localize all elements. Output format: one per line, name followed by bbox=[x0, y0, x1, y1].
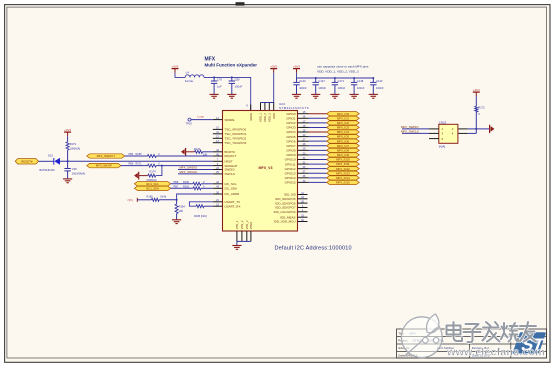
pin IDD_VDD_MCU stub bbox=[298, 221, 308, 223]
svg-text:MFX_WKUP: MFX_WKUP bbox=[96, 164, 112, 168]
net flag MFX_IO2 bbox=[327, 121, 360, 125]
R172 label bbox=[478, 106, 485, 110]
svg-text:R170: R170 bbox=[194, 147, 201, 151]
C147 value bbox=[318, 86, 326, 90]
svg-text:Multi Function eXpander: Multi Function eXpander bbox=[205, 62, 258, 67]
svg-text:MFX_SWDIO: MFX_SWDIO bbox=[401, 125, 419, 129]
svg-text:100nF: 100nF bbox=[235, 85, 243, 89]
pin IDD_SD/GPO6 stub bbox=[298, 202, 308, 204]
wire R186 to USART_RX bbox=[204, 205, 213, 207]
svg-text:1uF: 1uF bbox=[217, 85, 222, 89]
pin name TSC_YN/GPIO3 bbox=[225, 141, 247, 145]
resistor R184 bbox=[175, 204, 178, 214]
svg-text:PB0: PB0 bbox=[129, 163, 134, 166]
CN22 pin1 number bbox=[442, 127, 444, 131]
svg-text:VSS_2: VSS_2 bbox=[240, 220, 244, 229]
svg-text:MFX_SWCLK: MFX_SWCLK bbox=[401, 129, 419, 133]
pin VSS stub 4 bbox=[250, 231, 252, 241]
pin number 1 bbox=[302, 209, 304, 212]
pin name WAKEUP bbox=[225, 164, 238, 168]
wire SWCLK bbox=[178, 173, 213, 175]
wire GPIO13 to flag bbox=[309, 172, 327, 174]
pin name USART_RX bbox=[225, 204, 241, 208]
port RESET# bbox=[15, 159, 38, 164]
pin number GPIO14 bbox=[303, 175, 306, 178]
pin name GPIO14 bbox=[285, 176, 296, 180]
pin name IDD_SD/GPO6 bbox=[275, 201, 296, 205]
power +3V3 decoupling bank bbox=[293, 64, 300, 73]
pin name VSS_3 bbox=[245, 220, 249, 229]
pin 42 I2C_SCL stub bbox=[213, 183, 223, 185]
svg-text:Loop: Loop bbox=[198, 115, 205, 119]
pin name IDD_VDD_MCU bbox=[274, 220, 296, 224]
wire GPIO8 to flag bbox=[309, 149, 327, 151]
R181 label bbox=[183, 185, 190, 188]
R185 label bbox=[136, 153, 143, 156]
pin 26 I2C_ADDR stub bbox=[213, 193, 223, 195]
junction C76 bbox=[213, 76, 215, 78]
C76 label bbox=[217, 77, 222, 81]
power +3V3 CN22 bbox=[473, 88, 480, 97]
R174 label bbox=[150, 169, 157, 173]
port I2C1_SDA bbox=[134, 186, 170, 190]
wire GPIO5 to flag bbox=[309, 136, 327, 138]
note default I2C address bbox=[275, 246, 352, 252]
svg-text:VDD_2: VDD_2 bbox=[263, 113, 267, 122]
svg-text:GPIO2: GPIO2 bbox=[286, 121, 296, 125]
svg-text:TSC_YP/GPIO2: TSC_YP/GPIO2 bbox=[225, 137, 247, 141]
pin number GPIO2 bbox=[303, 120, 306, 123]
pin name VDD_1 bbox=[259, 113, 263, 122]
wire junction to I2C_ADDR bbox=[177, 194, 213, 200]
svg-text:Ferrite: Ferrite bbox=[185, 79, 194, 83]
svg-text:STM32L152CCT6: STM32L152CCT6 bbox=[279, 106, 309, 110]
ground BOOT0 sideways bbox=[181, 148, 186, 156]
wire I2C1_SCL to R180 bbox=[171, 183, 193, 185]
capacitor C76 bbox=[211, 77, 217, 94]
pin name GPIO13 bbox=[285, 171, 296, 175]
svg-text:100nF: 100nF bbox=[357, 86, 365, 90]
capacitor C143 bbox=[370, 78, 376, 94]
TP10 label bbox=[186, 122, 193, 126]
pin name IDD_MEAS bbox=[280, 215, 295, 219]
svg-text:IDD_SD/GPO6: IDD_SD/GPO6 bbox=[275, 201, 296, 205]
svg-text:VDD_3: VDD_3 bbox=[267, 113, 271, 122]
pin 7 NRST stub bbox=[213, 160, 223, 162]
R172 value bbox=[478, 112, 480, 116]
ground C80 bbox=[227, 94, 236, 98]
net label PB7 bbox=[174, 185, 179, 188]
svg-text:100nF: 100nF bbox=[376, 86, 384, 90]
pin name IDD_SD/GPO7 bbox=[275, 206, 296, 210]
svg-text:IDD_VDD_MCU: IDD_VDD_MCU bbox=[274, 220, 296, 224]
pin number 12 bbox=[216, 136, 219, 139]
svg-text:GPIO4: GPIO4 bbox=[286, 130, 296, 134]
pin number GPIO9 bbox=[303, 152, 306, 155]
wire gnd to R174 bbox=[139, 175, 148, 177]
pin GPIO14 stub bbox=[298, 177, 309, 179]
pin VSS stub 3 bbox=[246, 231, 248, 241]
svg-text:BAT60JFILM: BAT60JFILM bbox=[40, 168, 55, 172]
svg-text:MFX_IO9: MFX_IO9 bbox=[337, 153, 349, 157]
ground C76 bbox=[210, 94, 219, 98]
pin GPIO1 stub bbox=[298, 117, 309, 119]
pin number GPIO6 bbox=[303, 139, 306, 142]
svg-text:GPIO6: GPIO6 bbox=[286, 139, 296, 143]
wire +3V3 to L4 bbox=[175, 73, 185, 78]
pin number 43 bbox=[216, 186, 219, 189]
pin number GPIO8 bbox=[303, 148, 306, 151]
inductor L4 bbox=[185, 75, 204, 78]
C148 value bbox=[357, 86, 365, 90]
pin number 14 bbox=[216, 117, 219, 120]
capacitor C80 bbox=[229, 77, 235, 94]
net flag MFX_IO3 bbox=[327, 125, 360, 129]
pin name IDD_SI0 bbox=[284, 193, 296, 197]
pin VDD_3 stub bbox=[268, 103, 270, 111]
svg-text:I2C1_SDA: I2C1_SDA bbox=[146, 186, 159, 190]
svg-text:MFX_IO3: MFX_IO3 bbox=[337, 126, 349, 130]
wire pin2 riser to pin4 bbox=[475, 129, 477, 134]
svg-text:100nF: 100nF bbox=[299, 86, 307, 90]
net flag MFX_IO1 bbox=[327, 116, 360, 120]
net flag MFX_IO15 bbox=[327, 180, 360, 184]
svg-text:MFX_IO14: MFX_IO14 bbox=[336, 176, 350, 180]
pin number GPIO12 bbox=[303, 166, 306, 169]
pin number 3 bbox=[217, 163, 219, 166]
pin GPIO3 stub bbox=[298, 126, 309, 128]
pin 45 IRQOUT stub bbox=[213, 155, 223, 157]
svg-text:GPIO13: GPIO13 bbox=[285, 171, 296, 175]
C171 label bbox=[338, 79, 345, 83]
svg-text:R186 [N/A]: R186 [N/A] bbox=[194, 214, 207, 218]
pin IDD_SD/GPO5 stub bbox=[298, 198, 308, 200]
net flag MFX_IO14 bbox=[327, 176, 360, 180]
pin name I2C_ADDR bbox=[225, 192, 241, 196]
C80 value bbox=[235, 85, 243, 89]
net label Loop bbox=[198, 115, 205, 119]
resistor R185 bbox=[148, 155, 157, 158]
pin 44 BOOT0 stub bbox=[213, 151, 223, 153]
pin name GPIO15 bbox=[285, 181, 296, 185]
note decoupling 1 bbox=[317, 64, 369, 68]
port I2C1_SCL bbox=[134, 182, 170, 186]
pin 13 TSC_YN/GPIO3 stub bbox=[213, 142, 223, 144]
pin name IDD_SD/GPO5 bbox=[275, 197, 296, 201]
wire GPIO7 to flag bbox=[309, 145, 327, 147]
title block frame bbox=[397, 329, 547, 358]
R179 label bbox=[70, 142, 77, 146]
pin GPIO6 stub bbox=[298, 140, 309, 142]
resistor R170 bbox=[195, 150, 203, 153]
svg-text:MFX_IO12: MFX_IO12 bbox=[336, 167, 350, 171]
pin name VDD bbox=[272, 113, 276, 119]
wire MFX_SWDIO to CN22 bbox=[402, 128, 429, 130]
svg-text:+3V3: +3V3 bbox=[293, 64, 300, 68]
wire GPIO1 to flag bbox=[309, 117, 327, 119]
svg-text:MFX_IO10: MFX_IO10 bbox=[336, 158, 350, 162]
C148 label bbox=[357, 79, 364, 83]
svg-text:R179: R179 bbox=[70, 142, 77, 146]
svg-text:MFX_IO6: MFX_IO6 bbox=[337, 139, 349, 143]
pin number 11 bbox=[216, 131, 219, 134]
pin number 24 bbox=[216, 167, 219, 170]
R186 label bbox=[194, 214, 207, 218]
wire pin2 to gnd bbox=[476, 128, 489, 130]
pin IDD_CAL/GPO4 stub bbox=[298, 211, 308, 213]
U24 name MFX_V3 bbox=[259, 166, 273, 170]
svg-text:MFX_IO5: MFX_IO5 bbox=[337, 135, 349, 139]
net flag MFX_IO4 bbox=[327, 130, 360, 134]
resistor R179 bbox=[66, 142, 69, 150]
svg-text:C171: C171 bbox=[338, 79, 345, 83]
svg-text:D15: D15 bbox=[48, 153, 53, 157]
svg-text:PB7: PB7 bbox=[174, 185, 179, 188]
pin number GPIO1 bbox=[303, 116, 306, 119]
svg-text:+3V3: +3V3 bbox=[172, 64, 179, 68]
svg-text:GPIO11: GPIO11 bbox=[285, 162, 296, 166]
svg-text:C140: C140 bbox=[299, 79, 306, 83]
junction C171 bbox=[334, 77, 336, 79]
pin number GPIO0 bbox=[303, 111, 306, 114]
pin 14 SPARE stub bbox=[213, 119, 223, 121]
pin number GPIO4 bbox=[303, 129, 306, 132]
wire pin2 bbox=[468, 128, 477, 130]
pin name I2C_SDA bbox=[225, 187, 238, 191]
svg-text:GPIO0: GPIO0 bbox=[286, 112, 296, 116]
C76 value bbox=[217, 85, 222, 89]
U24 refdes bbox=[279, 102, 285, 106]
net flag MFX_IO0 bbox=[327, 112, 360, 116]
pin number 34 bbox=[301, 196, 304, 199]
wire VSS bus bbox=[237, 240, 251, 242]
pin name TSC_XP/GPIO0 bbox=[225, 128, 247, 132]
pin name SPARE bbox=[225, 118, 235, 122]
svg-text:C143: C143 bbox=[376, 79, 383, 83]
L4 value Ferrite bbox=[185, 79, 194, 83]
svg-text:MFX_IO11: MFX_IO11 bbox=[336, 162, 350, 166]
ground VSS bbox=[232, 246, 241, 250]
pin name GPIO0 bbox=[286, 112, 296, 116]
R170 label bbox=[194, 147, 201, 151]
pin number 10 bbox=[216, 127, 219, 130]
schematic subtitle bbox=[205, 62, 258, 67]
R180 label bbox=[183, 181, 190, 184]
C143 value bbox=[376, 86, 384, 90]
svg-text:100nF[N/A]: 100nF[N/A] bbox=[72, 172, 85, 176]
pin 10 TSC_XP/GPIO0 stub bbox=[213, 128, 223, 130]
top edge mark bbox=[236, 2, 245, 5]
net flag MFX_IO7 bbox=[327, 144, 360, 148]
capacitor C148 bbox=[351, 78, 357, 94]
svg-text:GPIO5: GPIO5 bbox=[286, 135, 296, 139]
wire USART_TX bbox=[189, 202, 212, 206]
pin name GPIO8 bbox=[286, 149, 296, 153]
C171 value bbox=[338, 86, 346, 90]
wire R181 to I2C_SDA bbox=[201, 187, 213, 189]
pin name VSS_2 bbox=[240, 220, 244, 229]
net label MFX_SWDIO bbox=[180, 166, 198, 170]
svg-text:Default I2C Address:1000010: Default I2C Address:1000010 bbox=[275, 246, 352, 252]
D15 label bbox=[48, 153, 53, 157]
wire R179 to NRST bbox=[67, 150, 69, 161]
ground C148 bbox=[350, 94, 359, 98]
wire GPIO0 to flag bbox=[309, 113, 327, 115]
pin name GPIO1 bbox=[286, 116, 296, 120]
ground R184 bbox=[172, 220, 181, 224]
svg-text:MFX_IO0: MFX_IO0 bbox=[337, 112, 349, 116]
svg-text:MFX_IRQOUT: MFX_IRQOUT bbox=[97, 154, 116, 158]
svg-text:C80: C80 bbox=[235, 77, 240, 81]
svg-text:VDDA: VDDA bbox=[249, 113, 253, 121]
pin GPIO8 stub bbox=[298, 149, 309, 151]
pin number GPIO7 bbox=[303, 143, 306, 146]
wire GPIO2 to flag bbox=[309, 122, 327, 124]
svg-text:R185: R185 bbox=[136, 153, 143, 156]
svg-text:VSS_1: VSS_1 bbox=[235, 220, 239, 229]
junction C80 bbox=[231, 76, 233, 78]
capacitor C171 bbox=[332, 78, 338, 94]
wire junction to R184 bbox=[176, 200, 178, 204]
power +3V3 VDD bbox=[270, 64, 277, 73]
junction I2C_ADDR bbox=[176, 199, 178, 201]
watermark elecfans logo bbox=[401, 314, 442, 358]
wire GPIO12 to flag bbox=[309, 168, 327, 170]
svg-text:MFX_IO2: MFX_IO2 bbox=[337, 121, 349, 125]
pin name VDD_2 bbox=[263, 113, 267, 122]
pin number GPIO3 bbox=[303, 125, 306, 128]
svg-text:R171: R171 bbox=[136, 163, 143, 166]
pin GPIO11 stub bbox=[298, 163, 309, 165]
svg-text:MFX_IO15: MFX_IO15 bbox=[336, 181, 350, 185]
svg-text:GPIO14: GPIO14 bbox=[285, 176, 296, 180]
pin name GPIO9 bbox=[286, 153, 296, 157]
pin IDD_SD/GPO7 stub bbox=[298, 207, 308, 209]
svg-text:I2C_SDA: I2C_SDA bbox=[225, 187, 238, 191]
pin CN22-2 stub bbox=[458, 128, 468, 130]
svg-text:[N/A]: [N/A] bbox=[161, 194, 167, 198]
net flag MFX_IO12 bbox=[327, 167, 360, 171]
pin number 7 bbox=[217, 159, 219, 162]
svg-text:VSSA: VSSA bbox=[249, 222, 253, 230]
net flag MFX_IO10 bbox=[327, 157, 360, 161]
title block Title bbox=[398, 331, 415, 335]
junction WKUP R174 bbox=[161, 165, 163, 167]
pin name GPIO10 bbox=[285, 158, 296, 162]
pin name VDD_3 bbox=[267, 113, 271, 122]
svg-text:SWCLK: SWCLK bbox=[225, 172, 236, 176]
junction CN22 pin2 bbox=[475, 128, 477, 130]
R170 value bbox=[203, 153, 208, 157]
op-amp U24 body bbox=[223, 111, 298, 232]
svg-text:USART_RX: USART_RX bbox=[225, 204, 241, 208]
C38 value bbox=[72, 172, 85, 176]
pin 22 USART_RX stub bbox=[213, 205, 223, 207]
pin number 21 bbox=[216, 199, 219, 202]
L4 label bbox=[186, 71, 190, 75]
wire R185 to IRQOUT bbox=[156, 155, 213, 157]
port (3V) bbox=[128, 198, 138, 202]
svg-text:GPIO10: GPIO10 bbox=[285, 158, 296, 162]
pin CN22-5 stub bbox=[429, 138, 439, 140]
svg-text:10K: 10K bbox=[179, 209, 184, 213]
watermark url text bbox=[446, 347, 545, 359]
R180 value bbox=[203, 181, 205, 184]
junction NRST pullup bbox=[67, 160, 69, 162]
wire R172 to CN22 pin2 bbox=[475, 112, 477, 129]
pin 43 I2C_SDA stub bbox=[213, 187, 223, 189]
wire R180 to I2C_SCL bbox=[201, 183, 213, 185]
pin 12 TSC_YP/GPIO2 stub bbox=[213, 137, 223, 139]
svg-text:MFX_IO1: MFX_IO1 bbox=[337, 116, 349, 120]
svg-text:USART_TX: USART_TX bbox=[225, 200, 241, 204]
pin number GPIO5 bbox=[303, 134, 306, 137]
title block Revision bbox=[472, 346, 489, 350]
wire GPIO11 to flag bbox=[309, 163, 327, 165]
wire SWDIO bbox=[178, 169, 213, 171]
pin name GPIO11 bbox=[285, 162, 296, 166]
CN22 pin5 number bbox=[442, 137, 444, 141]
pin name SWDIO bbox=[225, 168, 236, 172]
svg-text:SPARE: SPARE bbox=[225, 118, 235, 122]
svg-text:I2C1_SCL: I2C1_SCL bbox=[146, 182, 159, 186]
pin number 44 bbox=[216, 149, 219, 152]
R182 label bbox=[147, 194, 154, 198]
resistor R182 bbox=[152, 198, 160, 201]
pin number 35 bbox=[301, 201, 304, 204]
pin name BOOT0 bbox=[225, 150, 236, 154]
pin number 9 VDDA bbox=[246, 104, 248, 108]
svg-text:GPIO7: GPIO7 bbox=[286, 144, 296, 148]
pin GPIO13 stub bbox=[298, 172, 309, 174]
svg-text:C76: C76 bbox=[217, 77, 222, 81]
ground R174 sideways bbox=[134, 172, 139, 180]
svg-text:VDD: VDD bbox=[272, 113, 276, 119]
C143 label bbox=[376, 79, 383, 83]
wire R184 to gnd bbox=[176, 214, 178, 220]
pin number 13 bbox=[216, 140, 219, 143]
R182 value bbox=[161, 194, 167, 198]
svg-text:MFX_IO13: MFX_IO13 bbox=[336, 171, 350, 175]
wire decoupling bus bbox=[297, 73, 374, 78]
svg-text:C148: C148 bbox=[357, 79, 364, 83]
net label PB0 bbox=[129, 163, 134, 166]
schematic title MFX bbox=[205, 57, 216, 63]
CN22 pin2 number bbox=[452, 127, 454, 131]
R184 value bbox=[179, 209, 184, 213]
capacitor C38 bbox=[64, 161, 70, 179]
svg-text:GPIO1: GPIO1 bbox=[286, 116, 296, 120]
resistor R172 bbox=[475, 106, 478, 112]
pin GPIO7 stub bbox=[298, 145, 309, 147]
R171 value bbox=[158, 163, 160, 166]
power +3V3 NRST pullup bbox=[64, 128, 71, 137]
C140 label bbox=[299, 79, 306, 83]
pin number 25 bbox=[216, 171, 219, 174]
net flag MFX_IRQOUT bbox=[87, 154, 125, 158]
title block Size bbox=[398, 346, 409, 350]
pin GPIO2 stub bbox=[298, 122, 309, 124]
pin 11 TSC_XN/GPIO1 stub bbox=[213, 133, 223, 135]
wire R182 to junction bbox=[159, 199, 177, 201]
svg-text:www.elecfans.com: www.elecfans.com bbox=[446, 347, 545, 359]
pin name TSC_XN/GPIO1 bbox=[225, 132, 247, 136]
wire I2C1_SDA to R181 bbox=[171, 187, 193, 189]
junction C147 bbox=[315, 77, 317, 79]
net flag MFX_WKUP bbox=[87, 163, 121, 167]
wire TP10 to SPARE bbox=[191, 119, 213, 121]
svg-text:VDD, VDD_1, VDD_2, VDD_3: VDD, VDD_1, VDD_2, VDD_3 bbox=[317, 69, 359, 73]
